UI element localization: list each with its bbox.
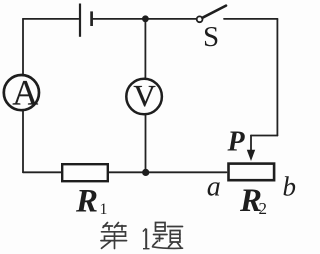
switch S hinge circle (197, 16, 203, 22)
voltmeter V1 circle (126, 79, 162, 115)
ammeter A1 circle (4, 75, 39, 110)
wire slider stem vertical (250, 136, 252, 153)
svg-text:V: V (133, 78, 156, 113)
svg-text:P: P (227, 127, 246, 158)
svg-text:S: S (203, 21, 219, 53)
wire left vertical upper (corner to ammeter) (22, 19, 24, 75)
wire right vertical (top corner down) (276, 19, 278, 136)
node junction dot bottom (voltmeter branch) (142, 169, 149, 176)
rheostat R2 box (229, 164, 275, 181)
wire top-right horizontal (switch to right corner) (224, 18, 277, 20)
wire right jog horizontal (to slider stem) (251, 135, 277, 137)
svg-text:A: A (12, 73, 38, 113)
battery short plate (-) (90, 11, 93, 26)
svg-text:b: b (283, 172, 297, 202)
svg-text:2: 2 (259, 199, 268, 218)
caption numeral 1 (143, 228, 150, 248)
caption character 题 (drawn strokes) (153, 223, 183, 249)
caption character 第 (drawn strokes) (101, 223, 127, 249)
battery long plate (+) (79, 4, 81, 37)
wire bottom-middle horizontal (R1 to R2 terminal a) (109, 171, 227, 173)
switch S lever (202, 6, 226, 18)
wire middle vertical upper (top node to voltmeter) (144, 19, 146, 78)
svg-text:R: R (75, 184, 98, 220)
wire top-middle horizontal (battery - to switch) (93, 18, 197, 20)
wire top-left horizontal (corner to battery +) (23, 18, 79, 20)
node junction dot top (voltmeter branch) (142, 15, 149, 22)
svg-text:1: 1 (100, 201, 108, 218)
wire left vertical lower (ammeter to bottom corner) (22, 111, 24, 172)
resistor R1 box (62, 164, 108, 181)
wire middle vertical lower (voltmeter to bottom node) (145, 115, 147, 172)
svg-text:a: a (207, 171, 221, 202)
wire bottom-left horizontal (corner to R1) (23, 171, 61, 173)
rheostat slider arrowhead (247, 150, 255, 161)
